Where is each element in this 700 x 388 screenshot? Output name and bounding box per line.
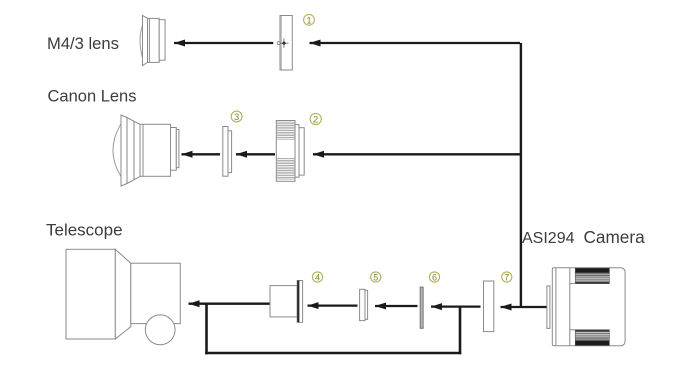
circled number 4	[312, 272, 322, 283]
camera heatsink top	[570, 268, 610, 283]
circled number 5	[371, 272, 381, 283]
svg-text:1: 1	[306, 15, 311, 26]
circled number 1	[304, 14, 315, 26]
ASI294 camera body	[547, 268, 625, 346]
svg-text:4: 4	[315, 272, 320, 282]
camera flange	[547, 286, 550, 329]
svg-text:6: 6	[432, 272, 437, 282]
svg-text:2: 2	[313, 115, 318, 126]
wire arrow: camera to adapter7	[501, 306, 548, 308]
svg-text:M4/3 lens: M4/3 lens	[47, 34, 119, 53]
camera front plate line	[555, 268, 557, 346]
wire arrow: main line to adapter1	[310, 42, 521, 44]
adapter 5 plates	[360, 289, 368, 320]
wire arrow: adapter4 to telescope	[189, 303, 270, 305]
circled number 3	[231, 111, 242, 123]
svg-text:ASI294: ASI294	[522, 230, 575, 247]
adapter 1 body	[280, 16, 292, 71]
wire arrow: adapter6 to adapter5	[375, 305, 418, 307]
camera heatsink bottom	[570, 330, 610, 346]
wire: bottom loop horizontal	[205, 352, 461, 355]
adapter 1 thumbscrew	[277, 38, 288, 48]
circled number 6	[429, 272, 439, 283]
main vertical wire	[520, 43, 522, 307]
telescope drawing	[66, 249, 180, 344]
adapter 6 thin filter	[420, 287, 423, 328]
Canon lens drawing	[113, 115, 179, 186]
svg-text:Telescope: Telescope	[46, 221, 123, 240]
wire arrow: adapter1 to M4/3 lens	[174, 42, 273, 44]
adapter 3 plates	[223, 127, 232, 177]
svg-text:5: 5	[373, 272, 378, 282]
svg-text:Canon Lens: Canon Lens	[48, 88, 137, 106]
adapter 4 box	[270, 281, 303, 323]
camera section line	[569, 268, 571, 346]
circled number 2	[310, 113, 321, 125]
wire arrow: main line to adapter2	[313, 153, 520, 155]
camera body outline	[552, 268, 625, 346]
wire arrow: adapter7/riser to adapter6	[431, 305, 481, 307]
wire: left riser from bottom loop	[205, 304, 208, 355]
adapter 2 rear flanges	[295, 125, 299, 178]
adapter 7 plate	[484, 281, 494, 332]
M4/3 lens drawing	[140, 15, 165, 65]
svg-text:7: 7	[504, 272, 509, 282]
wire arrow: adapter2 to adapter3	[236, 153, 275, 155]
svg-text:Camera: Camera	[584, 227, 646, 247]
circled number 7	[502, 272, 512, 283]
adapter 2 ribbed barrel	[276, 121, 304, 182]
wire: right riser	[459, 307, 462, 355]
wire arrow: adapter3 to Canon lens	[182, 153, 221, 155]
svg-text:3: 3	[234, 112, 239, 123]
wire arrow: adapter5 to adapter4	[308, 304, 358, 306]
